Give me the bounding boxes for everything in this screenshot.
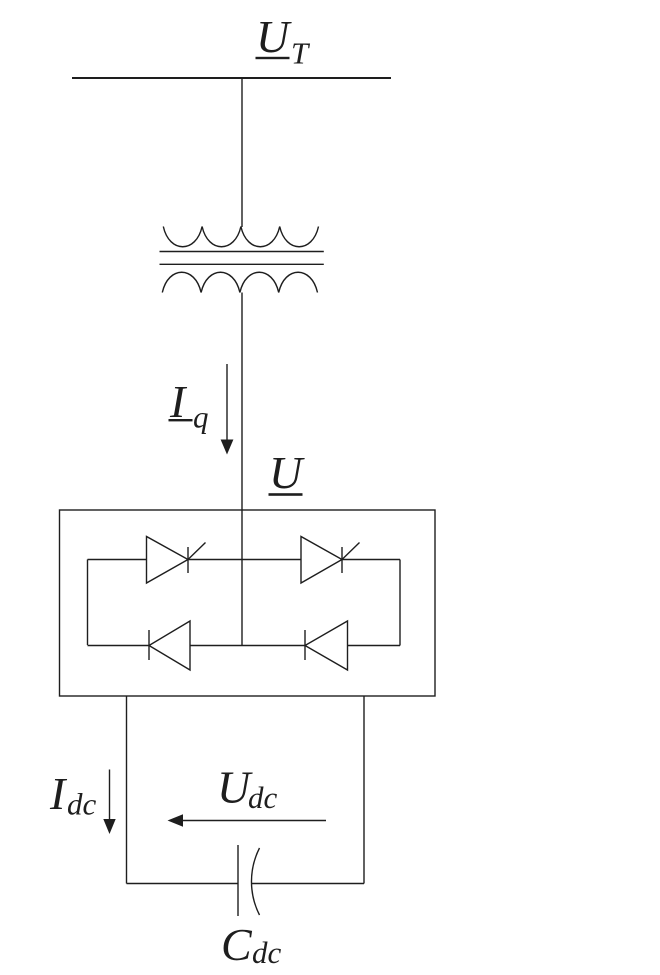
svg-text:q: q (193, 400, 209, 435)
svg-text:U: U (269, 447, 305, 498)
svg-text:T: T (291, 36, 311, 71)
svg-text:dc: dc (67, 787, 97, 822)
svg-text:dc: dc (252, 935, 282, 970)
svg-text:U: U (256, 11, 292, 62)
svg-text:dc: dc (248, 780, 278, 815)
svg-text:I: I (49, 768, 68, 819)
svg-text:C: C (221, 919, 253, 970)
